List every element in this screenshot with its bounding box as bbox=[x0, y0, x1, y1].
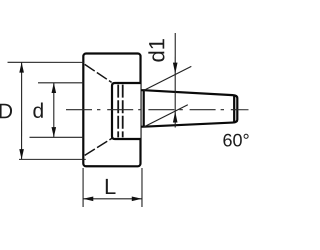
taper body bbox=[144, 90, 238, 127]
internal cone upper line bbox=[85, 64, 112, 82]
dimension D arrow up bbox=[19, 62, 24, 72]
dimension L extension right bbox=[141, 168, 143, 207]
dimension d arrow down bbox=[51, 127, 56, 137]
dimension d arrow up bbox=[52, 83, 57, 93]
dimension L arrow right bbox=[132, 197, 142, 202]
svg-text:d1: d1 bbox=[144, 38, 169, 62]
svg-text:D: D bbox=[0, 100, 13, 123]
bore hidden line right bbox=[122, 85, 124, 138]
disc body D bbox=[83, 53, 140, 166]
dimension D line bbox=[21, 62, 23, 159]
dimension L extension left bbox=[82, 168, 84, 207]
dimension d extension bottom bbox=[29, 136, 83, 138]
dimension d1 arrow up bbox=[173, 111, 178, 122]
taper big-end face bbox=[140, 89, 143, 127]
dimension D arrow down bbox=[19, 149, 24, 159]
dimension d extension top bbox=[38, 82, 83, 84]
bore hidden line left bbox=[117, 85, 119, 138]
dimension L arrow left bbox=[83, 196, 93, 201]
60-degree leg lower bbox=[144, 105, 188, 127]
boss outline bbox=[112, 83, 141, 139]
dimension D extension bottom bbox=[19, 158, 86, 160]
svg-text:d: d bbox=[33, 100, 45, 123]
dimension d1 arrow down bbox=[173, 63, 178, 74]
taper end inner line bbox=[233, 96, 235, 122]
60-degree leg upper bbox=[144, 66, 192, 90]
internal cone lower line bbox=[85, 138, 112, 155]
dimension D extension top bbox=[8, 61, 85, 63]
svg-text:60°: 60° bbox=[222, 130, 249, 150]
dimension d1 leader line bbox=[174, 33, 176, 128]
dimension d line bbox=[53, 83, 55, 137]
dimension L line bbox=[83, 198, 142, 200]
svg-text:L: L bbox=[104, 174, 116, 199]
centerline bbox=[66, 109, 249, 111]
